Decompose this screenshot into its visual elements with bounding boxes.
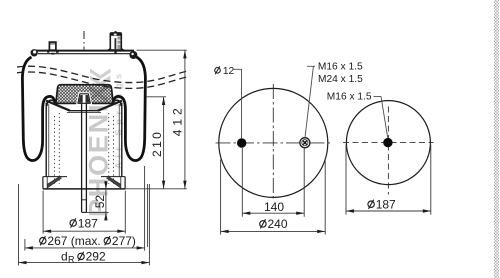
dia267 arrows [25, 246, 33, 249]
svg-text:412: 412 [170, 104, 184, 136]
dimension texts side view [40, 104, 185, 264]
small stud M12 [47, 42, 59, 54]
leader M16/M24 [305, 66, 315, 137]
svg-text:277): 277) [112, 234, 136, 248]
hole dia12 dot [237, 138, 246, 147]
svg-text:210: 210 [150, 130, 164, 157]
centerline horizontal dashed [343, 142, 434, 144]
412 arrows [183, 50, 186, 58]
centerline horizontal [216, 142, 333, 144]
text dia267 [40, 236, 46, 245]
watermark PHOENIX logo chevrons [90, 69, 111, 87]
circle dia240 plate [219, 88, 328, 197]
center stud dot [383, 138, 392, 147]
210 arrows [162, 97, 165, 105]
svg-text:187: 187 [376, 198, 396, 212]
ext lines dia187 side [43, 191, 125, 234]
dia292 arrows [19, 261, 27, 264]
ext line stud end for 52 [86, 212, 108, 214]
dim line 52 [105, 181, 107, 221]
svg-text:140: 140 [264, 200, 284, 214]
combo fitting M16/M24 [300, 138, 310, 148]
wire: wavy break dashed line lower [17, 72, 190, 88]
dim line dia292 [19, 262, 150, 264]
centerline vertical dashed [387, 107, 389, 195]
text dia187 side [70, 218, 76, 227]
svg-text:M16 x 1.5: M16 x 1.5 [318, 62, 363, 73]
ext line top plate right for 412 [137, 49, 187, 51]
text dia187 right [368, 200, 374, 209]
dims 140 / dia240 [221, 148, 326, 235]
piston hidden dotted lines [55, 113, 114, 184]
svg-text:M16 x 1.5: M16 x 1.5 [327, 91, 372, 102]
ext line bottom right for 210/412 [125, 188, 187, 190]
ext lines dia292 [19, 184, 150, 265]
svg-text:292: 292 [86, 250, 106, 264]
dim line 210 [163, 97, 165, 189]
svg-text:52: 52 [93, 195, 107, 209]
big stud / air fitting M16-M24 [108, 31, 125, 53]
text dia240 [260, 219, 266, 228]
centerline vertical [272, 84, 274, 199]
svg-text:d: d [61, 250, 68, 264]
dim line 412 [184, 50, 186, 189]
bellows fold inner arcs [47, 100, 121, 106]
piston base [43, 177, 125, 189]
rod cap under bumper [78, 94, 90, 104]
wire: wavy break dashed line upper [17, 66, 190, 82]
dia187 side arrows [43, 230, 51, 233]
checker strip right edge [494, 0, 499, 278]
svg-text:240: 240 [268, 217, 288, 231]
svg-text:M24 x 1.5: M24 x 1.5 [318, 74, 363, 85]
svg-text:267 (max.: 267 (max. [47, 234, 100, 248]
label dia12 [215, 66, 221, 74]
centerline top [83, 31, 85, 50]
top plate right roll edge [129, 51, 137, 59]
dim line dia267 [25, 247, 145, 249]
svg-text:R: R [68, 255, 75, 265]
dim line dia187 side [43, 230, 125, 232]
52 arrows (outside) [104, 181, 107, 189]
bumper rubber crosshatched [56, 85, 113, 104]
top plate [34, 51, 134, 54]
piston bottom line [43, 188, 125, 190]
piston dish top [46, 101, 122, 177]
leader M16 right [374, 96, 388, 137]
bellows outline right [113, 57, 145, 161]
arrows side view [19, 50, 187, 264]
ext lines dia267 [25, 166, 145, 251]
ext line 210 top [146, 96, 166, 98]
svg-text:12: 12 [223, 66, 235, 77]
svg-text:187: 187 [78, 216, 98, 230]
central rod [82, 104, 87, 213]
circle dia187 plate [346, 101, 430, 185]
dims dia187 right [346, 145, 431, 215]
leader dia12 [234, 69, 242, 138]
bellows outline left [22, 57, 55, 161]
top plate left roll edge [31, 49, 38, 56]
